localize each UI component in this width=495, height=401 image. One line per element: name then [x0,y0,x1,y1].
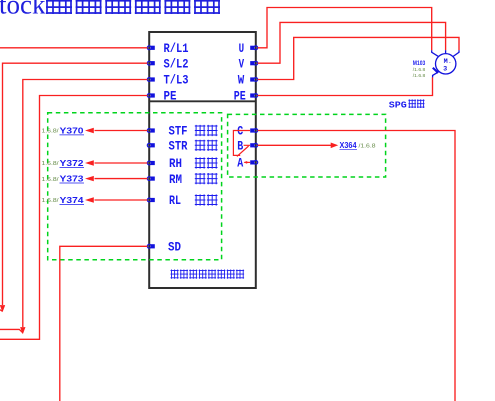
node label 1.6.8/Y374 [42,196,85,205]
svg-text:Y373: Y373 [60,174,85,183]
wire PE down-left exits left edge [0,96,147,340]
svg-text:tock: tock [0,0,46,20]
svg-text:PE: PE [234,90,246,104]
labels C B A relay terminals [237,125,243,171]
svg-text:3: 3 [443,66,447,74]
svg-text:1.6.8/: 1.6.8/ [42,198,60,204]
wire STF/Y370 [95,130,148,132]
svg-text:Y370: Y370 [60,126,85,135]
wire RM/Y373 [95,178,148,180]
motor M 3~ text [443,58,452,74]
svg-text:RM: RM [169,173,182,187]
arrow RH/Y372 [85,160,94,165]
svg-text:A: A [237,157,243,171]
labels STF STR RH RM RL control terminals [168,125,188,255]
wire SD down exits bottom [60,246,148,401]
svg-text:U: U [239,42,245,56]
arrow at S/L2 wire end [0,305,5,312]
svg-text:1.6.8/: 1.6.8/ [42,161,60,167]
wire R/L1 to left edge [0,47,147,49]
svg-text:1.6.8/: 1.6.8/ [42,129,60,135]
motor earth stub [433,72,438,77]
title text (partially cut at top) [0,0,220,20]
bottom CJK label: top-conveyor inverter [171,270,245,279]
svg-text:Y374: Y374 [60,196,85,205]
relay contact C-B jumper [233,131,250,157]
svg-text:/1.6.8: /1.6.8 [359,144,376,150]
wire V to motor [258,22,446,63]
svg-text:PE: PE [164,90,177,104]
svg-text:RH: RH [169,157,182,171]
wire RL/Y374 [95,199,148,201]
svg-text:STR: STR [169,140,188,154]
wire U to motor [258,8,432,51]
svg-text:`: ` [448,62,452,69]
wire S/L2 down left side [0,63,147,311]
label SPG motor [389,99,425,110]
wire B to X364 reference [258,144,331,146]
input pins R/L1,S/L2,T/L3,PE [147,46,155,98]
inverter internal divider [149,100,256,102]
green dashed group box (relay output) [228,114,386,177]
node label 1.6.8/Y372 [42,159,85,168]
inverter U1 main box [149,32,256,288]
svg-text:/1.6.8: /1.6.8 [413,73,426,79]
svg-text:X364: X364 [340,141,358,150]
arrow at T/L3 wire end [20,327,25,334]
CJK speed labels (forward/reverse/high/mid/low) [195,125,218,206]
motor terminal stub left [432,50,439,56]
control pins STF,STR,RH,RM,RL,SD [147,128,155,248]
arrow to X364 [331,143,339,149]
arrow RL/Y374 [85,197,94,202]
motor terminal stub right [453,50,459,56]
relay pins C,B,A [250,128,258,164]
wire T/L3 down left side [0,80,147,333]
labels U V W PE (right output terminals) [234,42,246,104]
arrow RM/Y373 [85,176,94,181]
svg-text:/1.6.8: /1.6.8 [413,67,426,73]
svg-text:RL: RL [169,194,181,208]
svg-text:Y372: Y372 [60,159,85,168]
arrow STF/Y370 [85,128,94,133]
output pins U,V,W,PE [250,46,258,98]
node label X364/1.6.8 [340,141,376,150]
svg-text:M103: M103 [413,60,426,67]
svg-text:W: W [238,74,245,88]
label /1.6.8 /1.6.8 [413,67,426,79]
svg-text:SPG: SPG [389,100,407,111]
svg-text:STF: STF [169,125,188,139]
motor M103 circle [436,54,456,74]
svg-text:1.6.8/: 1.6.8/ [42,177,60,183]
motor terminal stub center [445,50,447,53]
wire RH/Y372 [95,162,148,164]
svg-text:V: V [239,57,245,71]
svg-text:S/L2: S/L2 [164,57,189,71]
wire W to motor [258,37,459,79]
svg-text:SD: SD [168,241,181,255]
svg-text:C: C [237,125,243,139]
stub at A pin [244,161,250,163]
labels R/L1 S/L2 T/L3 PE (left input terminals) [164,42,189,104]
svg-text:R/L1: R/L1 [164,42,189,56]
node label 1.6.8/Y373 [42,174,85,183]
wire C down to bottom edge [258,131,455,401]
wire PE to motor earth [258,77,433,95]
node label 1.6.8/Y370 [42,126,85,135]
green dashed group box (control wiring) [48,113,222,260]
svg-text:T/L3: T/L3 [164,74,189,88]
